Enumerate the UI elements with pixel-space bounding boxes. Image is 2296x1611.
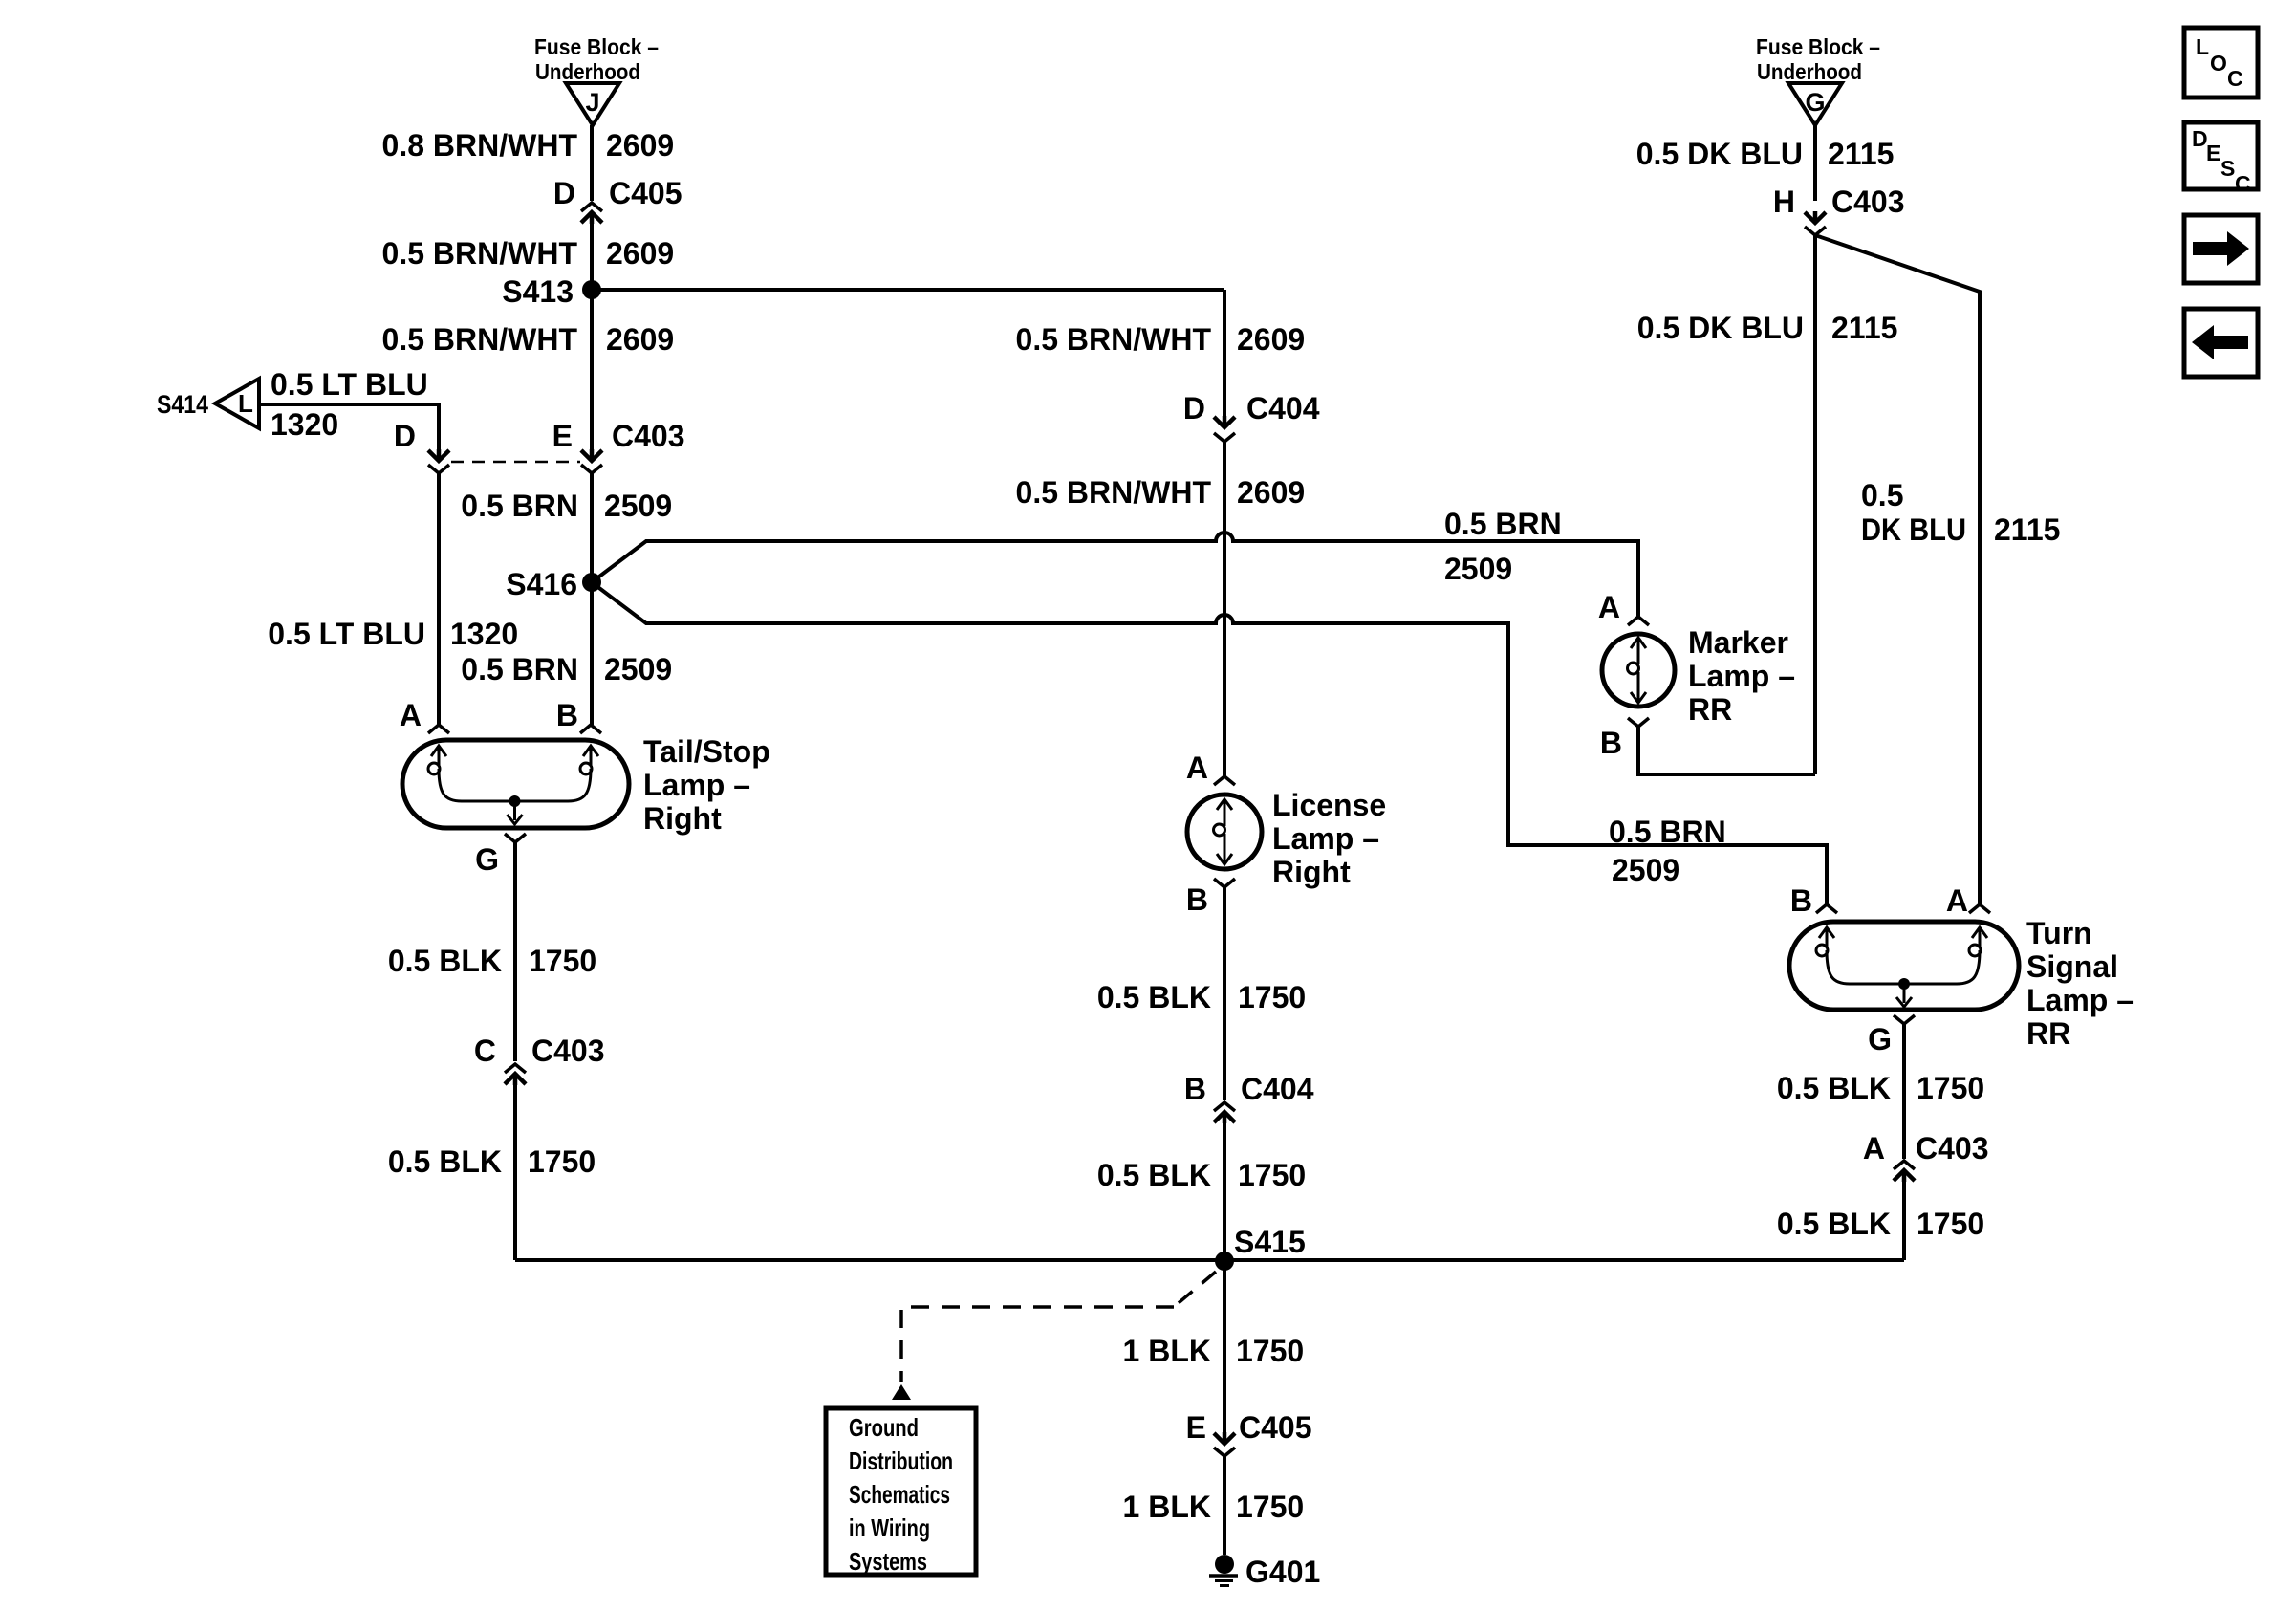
svg-text:DK BLU: DK BLU: [1861, 512, 1966, 547]
connector C403 dashed boundary: [451, 461, 580, 464]
legend box DESC: [2184, 122, 2258, 189]
wire 0.5 BRN/WHT 2609 from C405 to S413: [590, 212, 594, 290]
svg-text:0.5 BRN: 0.5 BRN: [461, 489, 578, 523]
ground distribution callout dashed leader: [901, 1272, 1216, 1382]
marker lamp RR body: [1602, 634, 1675, 707]
svg-text:C403: C403: [1831, 185, 1905, 219]
wire 0.5 DK BLU 2115 from fuse block G: [1813, 125, 1817, 201]
svg-text:License: License: [1272, 788, 1386, 822]
splice S414 triangle: [215, 379, 259, 428]
svg-text:Lamp –: Lamp –: [1688, 659, 1795, 693]
svg-text:S416: S416: [506, 567, 577, 601]
svg-text:D: D: [1183, 391, 1205, 425]
svg-text:0.5 BLK: 0.5 BLK: [388, 944, 502, 978]
svg-text:Lamp –: Lamp –: [2026, 983, 2134, 1017]
svg-text:A: A: [1946, 883, 1968, 918]
svg-text:0.5 DK BLU: 0.5 DK BLU: [1637, 311, 1804, 345]
svg-text:2609: 2609: [606, 322, 674, 357]
license lamp filament: [1217, 799, 1232, 810]
svg-text:0.5 BRN: 0.5 BRN: [1444, 507, 1562, 541]
svg-text:A: A: [1186, 751, 1208, 785]
svg-text:B: B: [1186, 882, 1208, 917]
svg-text:0.5 BLK: 0.5 BLK: [1777, 1071, 1891, 1105]
wire 0.5 BRN 2509 from C403 E to S416: [590, 473, 594, 582]
svg-text:1750: 1750: [1238, 1158, 1306, 1192]
ground bus wire S415 horizontal: [515, 1258, 1904, 1262]
svg-text:C405: C405: [1239, 1410, 1312, 1445]
tail lamp internal junction: [509, 795, 521, 807]
ground distribution schematics box: [826, 1408, 976, 1575]
svg-text:C: C: [474, 1034, 496, 1068]
svg-text:1750: 1750: [529, 944, 596, 978]
fuse block connector triangle G: [1788, 83, 1842, 125]
svg-text:B: B: [1184, 1072, 1206, 1106]
svg-text:G: G: [1805, 88, 1825, 117]
legend box forward arrow: [2184, 215, 2258, 283]
tail lamp internal bus: [439, 769, 591, 801]
svg-text:C404: C404: [1246, 391, 1320, 425]
svg-text:1320: 1320: [450, 617, 518, 651]
svg-text:0.5 BRN/WHT: 0.5 BRN/WHT: [1016, 475, 1212, 510]
svg-text:in Wiring: in Wiring: [849, 1513, 930, 1542]
svg-text:RR: RR: [1688, 692, 1732, 727]
svg-text:C405: C405: [609, 176, 682, 210]
marker lamp filament: [1631, 638, 1646, 648]
svg-text:1750: 1750: [1236, 1490, 1304, 1524]
svg-text:2509: 2509: [604, 652, 672, 686]
svg-text:L: L: [238, 389, 253, 418]
svg-text:G: G: [475, 842, 499, 877]
svg-text:C403: C403: [612, 419, 685, 453]
tail lamp filament A: [431, 746, 446, 756]
svg-text:Tail/Stop: Tail/Stop: [643, 734, 770, 769]
svg-text:1750: 1750: [1238, 980, 1306, 1014]
svg-text:1320: 1320: [271, 407, 338, 442]
svg-text:O: O: [2210, 51, 2227, 76]
svg-text:E: E: [2206, 141, 2220, 165]
svg-text:2509: 2509: [1444, 552, 1512, 586]
legend box LOC: [2184, 28, 2258, 98]
svg-text:Lamp –: Lamp –: [643, 768, 750, 802]
wire 0.5 BRN 2509 from S416 to marker lamp A: [592, 533, 1638, 617]
svg-text:RR: RR: [2026, 1016, 2070, 1051]
svg-text:E: E: [552, 419, 573, 453]
wire 0.5 LT BLU from S414 to C403 D: [261, 404, 439, 461]
ground distribution callout arrow: [892, 1384, 911, 1400]
svg-text:2609: 2609: [606, 236, 674, 271]
svg-text:2115: 2115: [1828, 137, 1894, 171]
svg-text:0.5 BLK: 0.5 BLK: [1097, 980, 1211, 1014]
svg-text:Turn: Turn: [2026, 916, 2092, 950]
wire 0.5 BLK 1750 from C403 C to S415: [513, 1074, 517, 1260]
svg-text:0.5 BRN/WHT: 0.5 BRN/WHT: [382, 322, 578, 357]
fuse block connector triangle J: [566, 83, 619, 125]
svg-text:1 BLK: 1 BLK: [1123, 1490, 1211, 1524]
tail/stop lamp right body: [402, 740, 629, 828]
svg-text:E: E: [1186, 1410, 1206, 1445]
svg-text:B: B: [1790, 883, 1812, 918]
svg-text:1750: 1750: [1236, 1334, 1304, 1368]
svg-text:S414: S414: [157, 390, 208, 419]
ground G401: [1215, 1555, 1234, 1574]
turn signal lamp internal junction: [1898, 978, 1910, 990]
svg-text:1750: 1750: [1917, 1071, 1984, 1105]
wire 0.5 DK BLU 2115 from C403 H down to marker lamp B join: [1813, 235, 1817, 774]
wire from S413 to license lamp branch (horizontal): [592, 288, 1224, 292]
svg-text:Signal: Signal: [2026, 949, 2118, 984]
wire 0.5 BLK 1750 from C404 B through S415 to C405 E: [1223, 1112, 1226, 1444]
svg-text:0.5 BLK: 0.5 BLK: [1777, 1207, 1891, 1241]
svg-text:0.5 LT BLU: 0.5 LT BLU: [268, 617, 425, 651]
svg-text:2509: 2509: [604, 489, 672, 523]
wire 0.5 BRN 2509 from S416 to tail lamp B: [590, 582, 594, 725]
svg-text:0.5 BRN/WHT: 0.5 BRN/WHT: [1016, 322, 1212, 357]
wire 0.5 BRN/WHT 2609 from C404 D to license lamp A: [1223, 442, 1226, 776]
svg-text:J: J: [585, 88, 599, 117]
svg-text:Fuse Block –: Fuse Block –: [534, 34, 659, 59]
turn signal lamp internal bus: [1827, 950, 1980, 984]
svg-text:2609: 2609: [1237, 475, 1305, 510]
svg-text:2609: 2609: [1237, 322, 1305, 357]
svg-text:2115: 2115: [1994, 512, 2060, 547]
wire 0.5 LT BLU 1320 from C403 D to tail lamp A: [437, 473, 441, 725]
svg-text:C404: C404: [1241, 1072, 1314, 1106]
svg-text:0.5 BRN: 0.5 BRN: [1609, 815, 1726, 849]
svg-text:Distribution: Distribution: [849, 1447, 953, 1475]
svg-text:C403: C403: [1916, 1131, 1989, 1165]
svg-text:0.5 BRN/WHT: 0.5 BRN/WHT: [382, 236, 578, 271]
svg-text:Systems: Systems: [849, 1547, 927, 1576]
wire 0.8 BRN/WHT 2609 from fuse block J: [590, 125, 594, 201]
wire 0.5 BRN 2509 from S416 to turn signal lamp B: [592, 582, 1827, 904]
svg-text:Underhood: Underhood: [535, 59, 640, 84]
svg-text:0.8 BRN/WHT: 0.8 BRN/WHT: [382, 128, 578, 163]
svg-text:0.5 BRN: 0.5 BRN: [461, 652, 578, 686]
svg-text:Fuse Block –: Fuse Block –: [1756, 34, 1880, 59]
tail lamp filament B: [583, 746, 598, 756]
svg-text:B: B: [1600, 726, 1622, 760]
wire 0.5 BLK 1750 from C403 A to S415: [1902, 1170, 1906, 1260]
legend box back arrow: [2184, 309, 2258, 377]
svg-text:Lamp –: Lamp –: [1272, 821, 1379, 856]
svg-text:Schematics: Schematics: [849, 1480, 950, 1509]
wire 1 BLK 1750 from C405 E to G401: [1223, 1456, 1226, 1555]
svg-text:0.5 DK BLU: 0.5 DK BLU: [1636, 137, 1803, 171]
svg-text:S413: S413: [502, 274, 574, 309]
wire 0.5 BRN/WHT 2609 from S413 down to C403 E: [590, 290, 594, 461]
svg-text:1 BLK: 1 BLK: [1123, 1334, 1211, 1368]
svg-text:2115: 2115: [1831, 311, 1897, 345]
svg-text:D: D: [394, 419, 416, 453]
svg-text:Right: Right: [643, 801, 722, 836]
svg-text:S415: S415: [1234, 1225, 1306, 1259]
wire 0.5 BRN/WHT 2609 branch down to C404 D: [1223, 290, 1226, 427]
svg-text:0.5: 0.5: [1861, 478, 1903, 512]
svg-text:L: L: [2196, 34, 2209, 59]
svg-text:C: C: [2235, 171, 2251, 196]
wire 0.5 DK BLU 2115 diagonal to turn signal A: [1815, 235, 1980, 904]
svg-text:B: B: [556, 698, 578, 732]
svg-text:S: S: [2220, 156, 2235, 181]
license lamp right body: [1187, 795, 1262, 869]
svg-text:A: A: [1598, 590, 1620, 624]
wire 0.5 BLK 1750 from tail lamp G to C403 C: [513, 842, 517, 1061]
svg-text:Underhood: Underhood: [1757, 59, 1862, 84]
turn signal lamp filament A: [1972, 927, 1987, 938]
svg-text:C403: C403: [531, 1034, 605, 1068]
svg-text:Right: Right: [1272, 855, 1351, 889]
wire 0.5 BLK 1750 from license lamp B to C404 B: [1223, 887, 1226, 1100]
svg-text:0.5 BLK: 0.5 BLK: [1097, 1158, 1211, 1192]
svg-text:A: A: [400, 698, 422, 732]
wire marker lamp B to DK BLU wire: [1638, 727, 1815, 774]
wire 0.5 BLK 1750 from turn signal G to C403 A: [1902, 1024, 1906, 1159]
svg-text:D: D: [553, 176, 575, 210]
svg-text:G: G: [1868, 1022, 1892, 1056]
svg-text:2509: 2509: [1612, 853, 1679, 887]
turn signal lamp RR body: [1789, 922, 2019, 1010]
svg-text:Ground: Ground: [849, 1413, 919, 1442]
svg-text:2609: 2609: [606, 128, 674, 163]
svg-text:C: C: [2227, 66, 2243, 91]
svg-text:1750: 1750: [528, 1144, 596, 1179]
turn signal lamp filament B: [1819, 927, 1834, 938]
svg-text:0.5 BLK: 0.5 BLK: [388, 1144, 502, 1179]
svg-text:H: H: [1773, 185, 1795, 219]
svg-text:G401: G401: [1245, 1555, 1320, 1589]
svg-text:A: A: [1863, 1131, 1885, 1165]
svg-text:0.5 LT BLU: 0.5 LT BLU: [271, 367, 428, 402]
svg-text:1750: 1750: [1917, 1207, 1984, 1241]
svg-text:Marker: Marker: [1688, 625, 1788, 660]
